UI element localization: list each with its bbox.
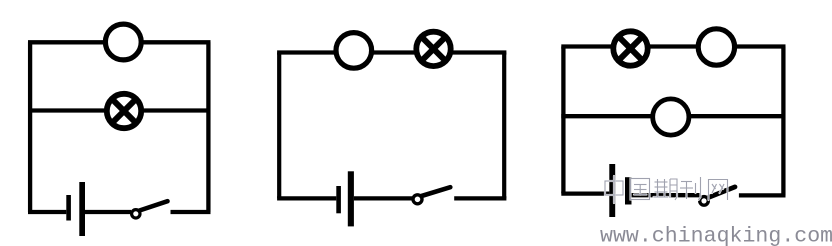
char 刊: [680, 177, 701, 200]
wire: right vertical side, circuit 3: [781, 47, 785, 196]
wire: right vertical side, circuit 1: [206, 42, 210, 212]
wire: bottom left segment to battery, circuit 1: [28, 210, 66, 214]
bulb circle (plain), circuit 2 top: [336, 33, 372, 69]
wire: battery to switch segment, circuit 1: [85, 210, 131, 214]
wire: switch to right corner segment, circuit 2: [454, 196, 506, 200]
lamp (crossed circle), circuit 1 middle: [107, 94, 141, 128]
battery, circuit 2: short thick plate: [336, 186, 341, 213]
battery, circuit 2: long plate: [348, 171, 354, 226]
char 期: [654, 179, 678, 200]
wire: middle left segment to bulb, circuit 3: [561, 114, 651, 118]
watermark text: 中国期刊网 (drawn strokes, gray): [605, 176, 728, 203]
battery, circuit 3: short thick plate (right): [625, 177, 632, 204]
wire: right vertical side, circuit 2: [502, 53, 506, 199]
wire: middle right segment from lamp, circuit 1: [142, 108, 211, 112]
wire: top right segment from meter, circuit 1: [142, 40, 211, 44]
svg-text:www.chinaqking.com: www.chinaqking.com: [600, 224, 832, 246]
wire: switch to right corner segment, circuit 3: [739, 193, 786, 197]
watermark halo (white underlay strokes): [605, 176, 728, 203]
switch blade, circuit 1: [140, 201, 168, 210]
switch pivot, circuit 1: [132, 210, 140, 218]
wire: middle right segment from bulb, circuit 3: [691, 114, 786, 118]
wire: left vertical side, circuit 3: [561, 47, 565, 194]
wire: segment between lamp and bulb, circuit 3: [649, 44, 697, 48]
wire: bottom left segment to battery, circuit 3: [561, 191, 609, 195]
char 国: [631, 179, 650, 200]
lamp (crossed circle), circuit 2 top: [416, 32, 450, 66]
battery, circuit 1: long plate: [79, 182, 85, 236]
meter circle (plain), circuit 1 top: [105, 24, 141, 60]
lamp (crossed circle), circuit 3 top: [613, 31, 647, 65]
wire: left vertical side, circuit 2: [277, 53, 281, 199]
switch pivot, circuit 2: [413, 195, 422, 204]
battery, circuit 1: short thick plate: [66, 195, 71, 221]
wire: top left segment to meter, circuit 1: [28, 40, 105, 44]
wire: battery to switch segment, circuit 3: [632, 193, 701, 197]
battery, circuit 3: long plate (left): [609, 164, 615, 217]
bulb circle (plain), circuit 3 top: [698, 29, 734, 65]
wire: top right segment from bulb, circuit 3: [736, 44, 786, 48]
wire: middle left segment to lamp, circuit 1: [28, 108, 106, 112]
wire: left vertical side, circuit 1: [28, 42, 32, 212]
wire: top right segment from lamp, circuit 2: [451, 50, 506, 54]
wire: battery to switch segment, circuit 2: [354, 196, 412, 200]
char 网: [709, 180, 728, 201]
switch pivot, circuit 3: [700, 197, 709, 206]
bulb circle (plain), circuit 3 middle: [653, 99, 689, 135]
switch blade, circuit 2: [422, 187, 451, 196]
wire: segment between bulb and lamp, circuit 2: [372, 50, 415, 54]
switch blade, circuit 3: [708, 187, 735, 198]
wire: switch to right corner segment, circuit 1: [171, 210, 211, 214]
wire: top left segment to first bulb, circuit 2: [277, 50, 336, 54]
wire: top left segment to lamp, circuit 3: [561, 44, 612, 48]
wire: bottom left segment to battery, circuit 2: [277, 196, 336, 200]
char 中: [605, 176, 623, 203]
